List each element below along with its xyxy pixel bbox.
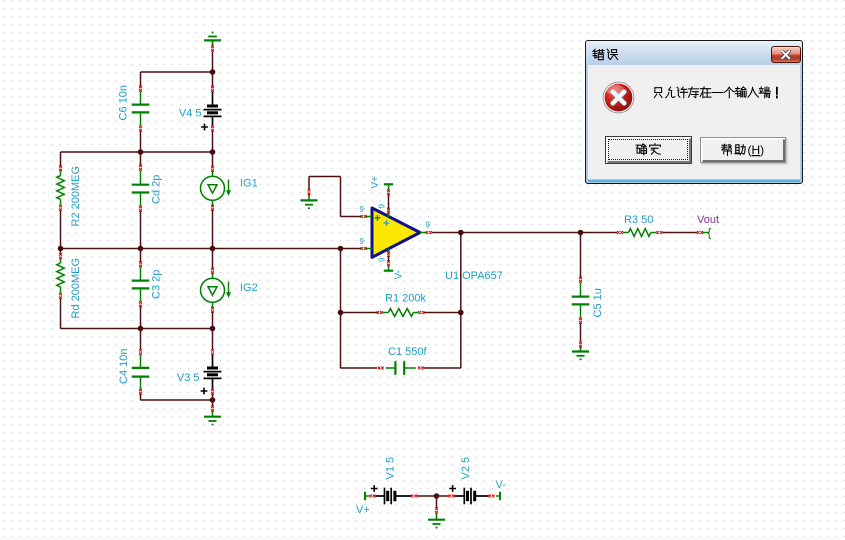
- close button: [771, 46, 801, 64]
- svg-text:R1 200k: R1 200k: [385, 293, 426, 305]
- power V+ jumper (op-amp top supply): [384, 184, 393, 195]
- battery V2: [449, 485, 488, 504]
- svg-text:Cd 2p: Cd 2p: [151, 175, 163, 204]
- message text: [652, 86, 784, 99]
- svg-text:V3 5: V3 5: [177, 372, 200, 384]
- resistor Rd: [57, 253, 64, 299]
- label C1 value: [388, 346, 427, 358]
- label R2 value: [70, 166, 82, 227]
- wire C5-top-stub: [580, 233, 582, 278]
- node N2c: [210, 246, 216, 252]
- wire Rd-bot-stub: [60, 299, 62, 329]
- svg-text:C3 2p: C3 2p: [151, 270, 163, 299]
- ground GND-top (above V4): [204, 33, 221, 52]
- wire gnd-top-horiz: [309, 176, 341, 178]
- label V+ name: [356, 504, 370, 516]
- label pin 9 (V+): [378, 204, 387, 209]
- svg-text:9: 9: [360, 237, 365, 246]
- wire C6-top-stub: [140, 72, 142, 86]
- node N2a: [58, 246, 64, 252]
- wire out-row: [432, 232, 617, 234]
- ground GND-V3: [204, 406, 221, 425]
- ground GND-opamp (non-inverting input): [301, 189, 318, 208]
- wire top-row: [141, 71, 213, 73]
- wire R3-to-vout: [662, 232, 697, 234]
- label V- label: [394, 270, 405, 279]
- svg-text:9: 9: [426, 221, 431, 230]
- label pin 9 (out): [426, 221, 431, 230]
- svg-text:V-: V-: [394, 270, 405, 279]
- node N-fb-top: [458, 230, 464, 236]
- capacitor Cd: [132, 165, 150, 212]
- node N3a: [138, 326, 144, 332]
- svg-text:(H): (H): [747, 143, 764, 157]
- wire vplus-stub: [388, 195, 390, 209]
- wire C1-left: [341, 367, 378, 369]
- svg-text:R3 50: R3 50: [624, 214, 653, 226]
- svg-text:9: 9: [378, 204, 387, 209]
- wire R2-top-stub: [60, 152, 62, 166]
- battery V4: [179, 86, 222, 132]
- capacitor C4: [132, 349, 150, 395]
- label V2 value: [460, 457, 472, 480]
- resistor R3: [617, 229, 662, 237]
- label pin 9 (+in): [360, 205, 365, 214]
- label V+ label: [370, 176, 381, 189]
- label V- name: [496, 479, 507, 491]
- svg-text:V4 5: V4 5: [179, 108, 202, 120]
- wire vminus-stub: [388, 257, 390, 262]
- terminal V+: [365, 492, 375, 500]
- wire Rd-top-stub: [60, 249, 62, 254]
- pin marks V2 left: [449, 495, 455, 498]
- current source IG2: [201, 268, 232, 313]
- svg-text:IG2: IG2: [240, 282, 258, 294]
- node N1b: [210, 149, 216, 155]
- wire C4-top-stub: [140, 329, 142, 350]
- node N2d: [338, 246, 344, 252]
- error dialog window: [585, 40, 803, 184]
- wire Cd-bot-stub: [140, 212, 142, 249]
- wire C5-bot-stub: [580, 324, 582, 342]
- wire plus-in-vert: [340, 177, 342, 217]
- label C6 value: [118, 85, 130, 120]
- svg-text:V1 5: V1 5: [385, 457, 397, 480]
- wire C1-right: [424, 367, 461, 369]
- svg-text:Vout: Vout: [697, 214, 719, 226]
- current source IG1: [201, 166, 232, 211]
- svg-text:9: 9: [378, 257, 387, 262]
- svg-text:V+: V+: [356, 504, 370, 516]
- title text placeholder: [592, 48, 620, 61]
- wire C3-top-stub: [140, 249, 142, 262]
- label IG1 name: [240, 178, 258, 190]
- wire plus-in-horiz: [341, 216, 362, 218]
- label Cd value: [151, 175, 163, 204]
- resistor R1: [377, 309, 425, 317]
- wire fb-vert-right: [460, 233, 462, 369]
- ground GND-supply: [428, 508, 445, 528]
- wire V3-bot-stub: [212, 395, 214, 401]
- label pin 9 (-in): [360, 237, 365, 246]
- pin marks V1 right: [411, 495, 417, 498]
- output terminal Vout: [697, 226, 711, 240]
- svg-text:C5 1u: C5 1u: [592, 288, 604, 317]
- wire gnd-to-node-top: [212, 52, 214, 73]
- label IG2 name: [240, 282, 258, 294]
- wire row2: [61, 248, 362, 250]
- node N4: [210, 397, 216, 403]
- node N-fb-R1r: [458, 310, 464, 316]
- wire R1-right: [424, 312, 461, 314]
- wire V3-top-stub: [212, 329, 214, 350]
- capacitor C1: [378, 361, 424, 375]
- battery V3: [177, 349, 222, 395]
- label U1 name: [445, 270, 503, 282]
- label C5 value: [592, 288, 604, 317]
- node N2b: [138, 246, 144, 252]
- wire row1: [61, 151, 213, 153]
- label V1 value: [385, 457, 397, 480]
- wire R2-bot-stub: [60, 211, 62, 249]
- wire C4-bot-stub: [140, 395, 142, 401]
- label C4 value: [118, 349, 130, 384]
- svg-text:R2 200MEG: R2 200MEG: [70, 166, 82, 227]
- op-amp U1 OPA657: [361, 208, 432, 258]
- wire V4-top-stub: [212, 72, 214, 86]
- node N3b: [210, 326, 216, 332]
- label C3 value: [151, 270, 163, 299]
- wire fb-vert-left: [340, 249, 342, 369]
- wire supply-gnd-stub: [436, 496, 438, 508]
- wire V4-bot-stub: [212, 131, 214, 152]
- svg-text:U1 OPA657: U1 OPA657: [445, 270, 503, 282]
- capacitor C5: [572, 277, 590, 324]
- node N-fb-R1: [338, 310, 344, 316]
- wire bottom-row-left: [141, 399, 213, 401]
- wire R1-left: [341, 312, 378, 314]
- node N-out: [578, 230, 584, 236]
- wire Cd-top-stub: [140, 152, 142, 165]
- OK button: [605, 136, 692, 164]
- wire C6-bot-stub: [140, 131, 142, 152]
- wire gnd-up-stub: [308, 177, 310, 190]
- wire IG2-bot-stub: [212, 313, 214, 329]
- terminal V-: [489, 492, 501, 500]
- svg-text:V2 5: V2 5: [460, 457, 472, 480]
- wire V1-to-node: [417, 495, 437, 497]
- wire C3-bot-stub: [140, 307, 142, 329]
- label R3 value: [624, 214, 653, 226]
- label pin 9 (V-): [378, 257, 387, 262]
- wire IG1-top-stub: [212, 152, 214, 166]
- svg-text:C1 550f: C1 550f: [388, 346, 427, 358]
- capacitor C6: [132, 86, 150, 132]
- dialog client area: [588, 65, 800, 179]
- wire IG2-top-stub: [212, 249, 214, 269]
- node N-top: [210, 69, 216, 75]
- svg-text:{: {: [707, 226, 711, 240]
- wire IG1-bot-stub: [212, 211, 214, 249]
- svg-text:V+: V+: [370, 176, 381, 189]
- wire V3-gnd-stub: [212, 400, 214, 406]
- label Vout label: [697, 214, 719, 226]
- node N1a: [138, 149, 144, 155]
- svg-text:V-: V-: [496, 479, 507, 491]
- label R1 value: [385, 293, 426, 305]
- Help button: [700, 137, 786, 163]
- svg-text:C4 10n: C4 10n: [118, 349, 130, 384]
- wire node-to-V2: [437, 495, 449, 497]
- svg-text:IG1: IG1: [240, 178, 258, 190]
- power V- jumper (op-amp bottom supply): [384, 260, 393, 270]
- label Rd value: [70, 258, 82, 319]
- resistor R2: [57, 165, 64, 211]
- svg-text:C6 10n: C6 10n: [118, 85, 130, 120]
- svg-text:Rd 200MEG: Rd 200MEG: [70, 258, 82, 319]
- battery V1: [371, 485, 411, 504]
- capacitor C3: [132, 261, 150, 307]
- svg-text:9: 9: [360, 205, 365, 214]
- ground GND-C5: [572, 342, 589, 360]
- wire row3: [61, 328, 213, 330]
- error icon: [602, 81, 635, 114]
- node N-supply: [434, 493, 440, 499]
